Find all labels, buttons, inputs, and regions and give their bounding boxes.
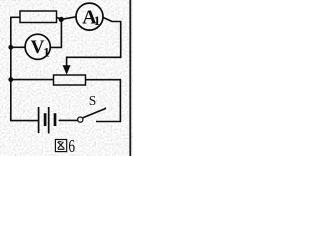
svg-text:1: 1 <box>43 44 50 59</box>
svg-text:1: 1 <box>94 13 101 28</box>
svg-text:S: S <box>89 93 97 108</box>
svg-text:6: 6 <box>68 137 75 156</box>
